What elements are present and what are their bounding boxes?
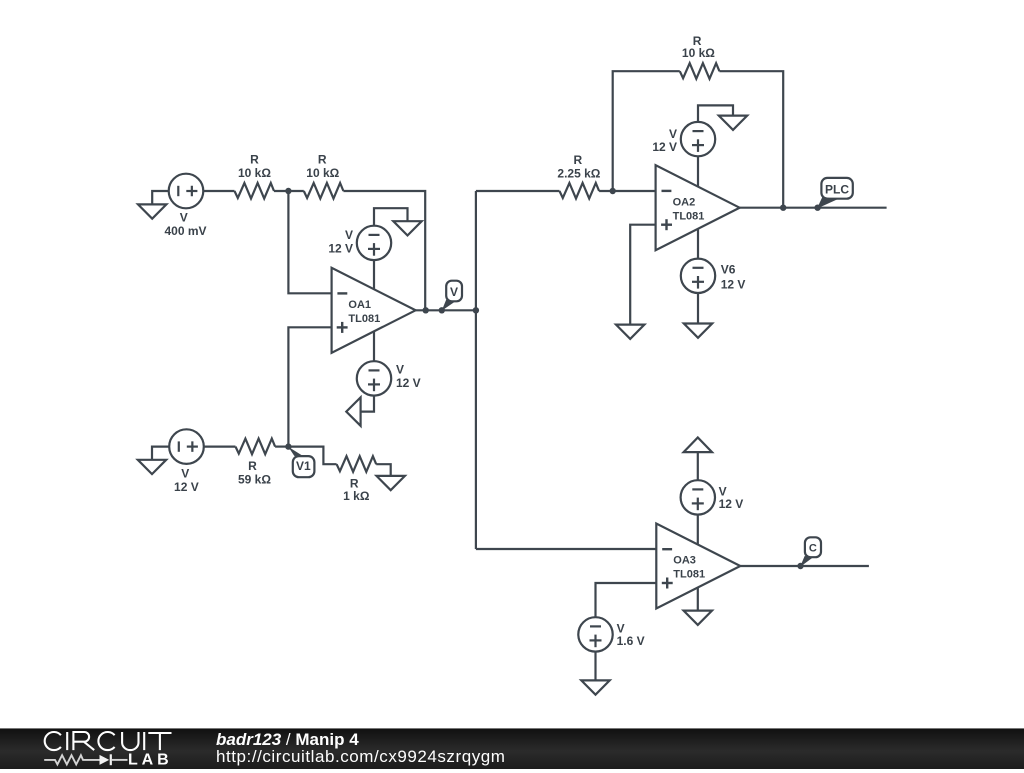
voltage source V 12V (OA2 top supply) [681,122,715,156]
svg-text:R: R [248,459,257,473]
resistor R1 10k [235,183,275,199]
wire OA3 V+ pin to supply [697,514,699,544]
node flag C anchor dot [797,563,803,569]
svg-text:TL081: TL081 [348,313,380,325]
voltage source V 12V (OA1 bottom supply) [357,361,391,395]
ground (R6) [377,476,405,490]
wire OA3 plus input to V 1.6V [596,583,657,617]
svg-text:10 kΩ: 10 kΩ [238,166,271,180]
node flag V1 [288,447,314,477]
svg-text:2.25 kΩ: 2.25 kΩ [557,166,600,180]
label V 12V (bottom left) [174,467,199,494]
wire net V vertical [475,191,477,549]
svg-text:V: V [396,362,404,376]
node flag C [800,537,821,567]
junction dot output to net [473,307,479,313]
node V1 junction dot [285,443,291,449]
wire OA3 V- pin to ground [697,587,699,610]
voltage source V 12V (OA1 top supply) [357,226,391,260]
node flag PLC [817,178,853,209]
svg-text:V6: V6 [721,263,736,277]
svg-text:12 V: 12 V [328,242,353,256]
wire V 1.6V to ground [594,651,596,680]
label V 12V (OA3 top supply) [719,485,744,512]
svg-text:V1: V1 [296,459,311,473]
voltage source V 12V (OA3 top supply) [681,480,715,514]
wire OA2 V+ pin to supply [697,156,699,186]
label V 12V (OA1 top supply) [328,228,353,256]
label V 12V (OA2 top supply) [652,127,677,154]
ground (OA1 top supply) [393,221,421,235]
svg-text:R: R [250,153,259,167]
wire R3 to OA2 minus input [599,190,656,192]
wire R1 to node A [274,190,304,192]
power arrow up (OA3) [684,438,712,453]
svg-text:12 V: 12 V [174,480,199,494]
svg-text:12 V: 12 V [396,376,421,390]
junction dot feedback node [610,188,616,194]
svg-text:OA3: OA3 [673,555,696,567]
wire V6 to ground [697,293,699,324]
ground (OA2 plus input) [616,325,644,339]
ground (V6) [684,324,712,338]
ground (left of source V 400mV) [138,191,169,219]
svg-text:V: V [450,285,458,299]
label OA1 TL081 [348,299,380,325]
label V 12V (OA1 bottom supply) [396,362,421,390]
junction dot feedback/output [423,307,429,313]
node flag V [442,281,462,311]
ground (left of source V 12V bottom) [138,447,170,475]
op-amp OA1 TL081 [332,268,416,353]
footer bar [0,728,1024,769]
svg-text:59 kΩ: 59 kΩ [238,472,271,486]
label V 400 mV [164,210,206,238]
ground (OA3 V-) [684,611,712,625]
svg-text:V: V [180,210,188,224]
svg-text:12 V: 12 V [652,140,677,154]
svg-text:C: C [809,542,817,554]
wire OA1 top supply to ground [374,208,408,226]
wire feedback down to output [719,71,783,208]
svg-text:V: V [345,228,353,242]
wire OA3 output to C [740,565,869,567]
wire R5 to node V1 [275,446,288,448]
label OA2 TL081 [673,196,705,222]
wire OA1 V+ pin to supply [373,260,375,289]
svg-text:R: R [573,153,582,167]
ground left-pointing (OA1 bottom supply) [346,397,360,425]
label R4 [682,34,715,60]
wire OA2 V- pin to supply V6 [697,229,699,259]
wire OA3 top supply to power arrow [697,452,699,480]
wire OA1 V- pin to bottom supply [373,332,375,362]
svg-text:TL081: TL081 [673,210,705,222]
wire R6 to ground [376,464,391,476]
svg-text:10 kΩ: 10 kΩ [682,46,715,60]
wire OA1 output [416,309,476,311]
ground (V 1.6V) [581,680,609,694]
svg-text:OA2: OA2 [673,196,696,208]
wire OA2 output to PLC [740,207,887,209]
wire OA2 plus input to ground [630,225,655,325]
ground (OA2 top supply) [719,116,747,130]
op-amp OA2 TL081 [656,165,740,250]
svg-text:R: R [318,153,327,167]
resistor R5 59k [236,439,276,455]
label V 1.6V [617,622,645,649]
wire R2 to feedback corner [343,191,425,310]
label V6 12V [721,263,746,292]
wire node A down to OA1 minus input [288,191,331,293]
op-amp OA3 TL081 [656,524,740,609]
svg-text:TL081: TL081 [673,569,705,581]
svg-text:12 V: 12 V [721,277,746,291]
node flag PLC anchor dot [814,205,820,211]
resistor R3 2.25k [560,183,600,199]
svg-text:V: V [669,127,677,141]
wire source to R5 [204,446,236,448]
label OA3 TL081 [673,555,705,581]
svg-text:OA1: OA1 [348,299,371,311]
label R5 [238,459,271,486]
label R1 [238,153,271,181]
wire net V to OA3 minus input [476,548,656,550]
wire OA1 plus input from node V1 [288,327,331,446]
wire feedback up [613,71,680,191]
svg-text:10 kΩ: 10 kΩ [306,166,339,180]
label R3 [557,153,600,180]
resistor R4 10k feedback [680,63,720,79]
CircuitLab logo [0,728,210,768]
svg-text:12 V: 12 V [719,497,744,511]
voltage source V 12V (bottom left) [169,429,204,464]
wire OA1 bottom supply to ground [361,395,374,411]
resistor R2 10k [304,183,344,199]
label R2 [306,153,339,181]
svg-text:400 mV: 400 mV [164,224,206,238]
voltage source V 400 mV [169,174,204,209]
svg-text:V: V [181,467,189,481]
wire OA2 top supply to ground [698,105,733,122]
wire net V to R3 [476,190,560,192]
junction dot OA2 output/feedback [780,205,786,211]
resistor R6 1k [337,456,377,472]
svg-text:LAB: LAB [128,752,173,768]
voltage source V 1.6V [578,617,612,651]
wire node V1 to R6 [288,447,336,465]
node flag V anchor dot [439,307,445,313]
label R6 [343,477,370,504]
wire source to R1 [203,190,235,192]
node A junction dot [285,188,291,194]
svg-text:1.6 V: 1.6 V [617,634,645,648]
svg-text:1 kΩ: 1 kΩ [343,489,370,503]
svg-text:PLC: PLC [825,183,849,197]
voltage source V6 12V [681,259,715,293]
